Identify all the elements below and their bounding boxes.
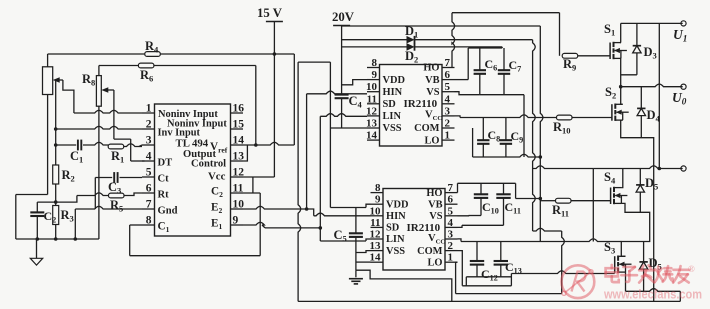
potentiometer P1 wiper arrow: [53, 77, 63, 83]
wire LO2 bottom row: [456, 293, 562, 295]
ground symbol left: [30, 258, 42, 265]
wire pin12-pin11 link: [252, 177, 254, 193]
wire C13 top stub: [500, 242, 502, 262]
capacitor C6: [474, 57, 498, 74]
svg-text:6: 6: [146, 183, 152, 195]
watermark url: [603, 287, 702, 302]
svg-text:7: 7: [445, 57, 451, 69]
diode D3: [633, 23, 657, 74]
diode D5 lower: [639, 242, 661, 292]
svg-text:VB: VB: [425, 75, 440, 86]
svg-text:COM: COM: [414, 123, 440, 134]
svg-text:C6: C6: [485, 57, 498, 73]
svg-text:Control: Control: [191, 159, 226, 170]
svg-text:R6: R6: [140, 68, 153, 84]
svg-text:D5: D5: [645, 176, 658, 192]
U1 internal pin labels: [158, 109, 228, 234]
wire C9 bottom stub: [505, 144, 507, 157]
potentiometer R8 label: [82, 72, 95, 88]
wire C2 top stub: [36, 202, 38, 212]
U1 pins 1-8 stubs and numbers: [142, 103, 155, 227]
wire pin8 drop: [129, 225, 131, 256]
wire P1 top stub: [47, 54, 49, 67]
capacitor C9: [500, 129, 524, 145]
svg-text:9: 9: [233, 215, 239, 227]
capacitor C8: [477, 128, 500, 144]
wire pin13 link: [243, 145, 247, 161]
wire HO1 top row: [452, 12, 560, 14]
wire S3 source row: [626, 289, 681, 292]
wire U0 row: [621, 84, 683, 87]
wire COM1 drop: [472, 128, 474, 157]
svg-text:D2: D2: [405, 49, 418, 65]
wire C6C7 top row: [468, 47, 502, 49]
svg-text:R4: R4: [145, 39, 159, 55]
wire divider riser: [56, 196, 77, 203]
resistor R5: [109, 193, 125, 213]
svg-text:15: 15: [233, 119, 245, 131]
wire VDD1 jog: [342, 80, 367, 85]
svg-text:VSS: VSS: [386, 246, 405, 257]
wire gnd row to pin7: [75, 206, 142, 209]
svg-text:3: 3: [445, 105, 451, 117]
wire caps drop to COM2 path: [465, 277, 467, 286]
svg-text:10: 10: [370, 205, 382, 217]
wire R11 to S4 gate: [571, 200, 610, 202]
wire divider row to R5: [77, 193, 109, 196]
wire R1 to pin3: [124, 144, 142, 147]
wire R9 feed drop: [559, 13, 561, 56]
svg-text:DT: DT: [158, 158, 173, 169]
potentiometer R8 body: [96, 76, 101, 107]
wire S3 drain: [621, 255, 625, 257]
svg-text:Rt: Rt: [158, 190, 170, 201]
node 20V leg join: [658, 167, 662, 171]
resistor R6: [138, 63, 154, 83]
wire VDD2 row: [330, 204, 370, 207]
wire S4 drain row left: [533, 166, 594, 169]
svg-text:C1: C1: [70, 149, 83, 165]
svg-text:R2: R2: [62, 168, 75, 184]
svg-text:7: 7: [448, 182, 454, 194]
capacitor C2: [30, 209, 56, 225]
wire C12 top stub: [476, 242, 478, 262]
diode D5 upper: [636, 169, 658, 213]
svg-text:6: 6: [445, 69, 451, 81]
svg-text:C8: C8: [488, 128, 501, 144]
wire ground stem: [36, 239, 38, 258]
svg-text:R3: R3: [61, 208, 74, 224]
wire R10 to S2 gate: [572, 117, 612, 119]
wire C7 top stub: [503, 48, 505, 70]
svg-text:R11: R11: [552, 203, 569, 219]
potentiometer P1 body: [43, 67, 53, 95]
wire C9 top stub: [505, 118, 507, 141]
wire divider to C2: [37, 201, 55, 203]
power 15V supply: [257, 6, 283, 22]
wire D1 bus drop: [533, 40, 536, 231]
svg-text:5: 5: [445, 81, 451, 93]
capacitor C3: [108, 172, 121, 195]
node U0 mid: [619, 85, 623, 89]
gate driver U3 IR2110 body: [383, 189, 445, 271]
wire R8 bottom drop: [98, 106, 100, 239]
wire feedback bus vertical: [55, 80, 57, 165]
wire gnd row riser: [74, 209, 76, 239]
wire R3 bottom: [55, 225, 57, 240]
wire E1 to branch: [265, 227, 320, 229]
svg-text:COM: COM: [417, 246, 443, 257]
wire HO2 to R11: [540, 199, 555, 201]
svg-text:12: 12: [233, 167, 245, 179]
svg-text:10: 10: [233, 199, 245, 211]
svg-text:VSS: VSS: [383, 123, 402, 134]
wire VS1 drop: [523, 95, 525, 157]
svg-text:D4: D4: [647, 108, 661, 124]
wire C12 bottom stub: [476, 265, 478, 277]
wire C5 bottom: [355, 237, 357, 270]
node bus HO2row: [539, 197, 543, 201]
wire C5 riser top: [355, 208, 357, 234]
svg-text:12: 12: [366, 105, 378, 117]
wire VSS1 row: [330, 127, 367, 129]
capacitor C4: [335, 94, 363, 110]
capacitor C12: [470, 261, 498, 283]
resistor R9: [562, 53, 578, 72]
wire pin1 row: [74, 110, 142, 113]
svg-text:IR2110: IR2110: [404, 98, 438, 110]
wire VSS net vertical: [329, 62, 331, 207]
transistor S4: [604, 170, 627, 204]
U2 internal pin labels: [383, 63, 443, 147]
svg-text:13: 13: [370, 240, 382, 252]
capacitor C1: [70, 140, 83, 165]
svg-text:1: 1: [448, 252, 454, 264]
wire right end riser: [679, 291, 681, 301]
wire VccA row: [458, 239, 622, 242]
wire VS2 stub link: [458, 215, 469, 217]
wire C12C13 bottom row: [466, 276, 511, 278]
watermark text dianzifashaoyou: [606, 265, 690, 283]
svg-text:11: 11: [233, 183, 244, 195]
svg-text:4: 4: [448, 217, 454, 229]
svg-text:14: 14: [370, 252, 382, 264]
capacitor C7: [498, 58, 521, 74]
svg-text:R9: R9: [563, 57, 576, 73]
node E2 branch: [305, 207, 309, 211]
svg-text:3: 3: [448, 229, 454, 241]
svg-text:SD: SD: [386, 223, 399, 234]
svg-text:C11: C11: [505, 200, 521, 216]
svg-text:13: 13: [366, 118, 378, 130]
wire C4 bottom: [341, 98, 343, 128]
node rail gndrow: [74, 237, 78, 241]
wire R6 row right: [154, 65, 256, 67]
svg-text:8: 8: [372, 57, 378, 69]
svg-text:LO: LO: [427, 257, 442, 268]
node feedback pin2: [54, 127, 58, 131]
node Vref-R6: [254, 143, 258, 147]
wire HIN1 row: [307, 91, 367, 94]
wire S3 source: [625, 272, 627, 291]
svg-text:14: 14: [233, 135, 245, 147]
wire E1 riser down: [319, 228, 321, 241]
wire E1 riser up: [319, 116, 321, 228]
svg-text:6: 6: [448, 194, 454, 206]
wire DT link to pin4: [131, 160, 145, 162]
svg-text:11: 11: [367, 93, 377, 105]
svg-text:15 V: 15 V: [257, 6, 283, 20]
wire 20V bus drop: [540, 26, 543, 242]
wire C8 top stub: [482, 118, 484, 141]
capacitor C10: [474, 194, 499, 215]
svg-text:13: 13: [233, 151, 245, 163]
ground symbol earth U3: [349, 279, 363, 284]
node rail R3: [54, 237, 58, 241]
wire 20V rail down to C4: [341, 26, 343, 95]
wire C8C9 bottom row: [473, 154, 541, 157]
wire VB1 riser: [467, 48, 469, 80]
svg-text:C4: C4: [349, 94, 363, 110]
svg-text:R10: R10: [553, 120, 571, 136]
svg-text:S1: S1: [604, 22, 615, 38]
wire LO2 jog: [456, 262, 458, 293]
wire Vcc1 jog: [455, 116, 461, 118]
wire VSS net top: [298, 61, 330, 63]
svg-text:VDD: VDD: [386, 199, 409, 210]
wire pin8 left: [130, 224, 142, 226]
potentiometer R8 wiper arrow: [101, 87, 114, 93]
svg-text:8: 8: [375, 182, 381, 194]
diode D4: [637, 87, 660, 138]
wire C2 bottom stub: [36, 216, 38, 239]
wire S1 source: [620, 58, 622, 86]
wire loop riser to pin11: [259, 193, 261, 256]
wire 20V leg drop: [658, 23, 660, 168]
capacitor C11: [496, 194, 521, 215]
wire left loop top: [16, 194, 48, 196]
svg-text:3: 3: [146, 135, 152, 147]
svg-text:5: 5: [448, 205, 454, 217]
wire 15V down to Vcc: [273, 54, 275, 177]
svg-text:HIN: HIN: [383, 87, 403, 98]
transistor S1: [604, 22, 627, 59]
resistor R11: [552, 198, 571, 218]
wire C11 top stub: [503, 183, 505, 194]
node rail C2: [36, 237, 40, 241]
wire S2 source drop: [653, 169, 655, 302]
U3 internal pin labels: [386, 188, 445, 269]
capacitor C5: [334, 228, 363, 244]
wire S4 source: [621, 203, 649, 254]
wire S3 gate row: [511, 271, 614, 274]
wire C6 top stub: [479, 48, 481, 70]
wire VS1 jog: [455, 92, 480, 95]
wire COM2 riser: [510, 274, 512, 286]
wire VS2 row: [469, 215, 482, 217]
terminal mid output: [681, 166, 686, 171]
wire LIN1 row: [320, 114, 367, 117]
svg-text:C3: C3: [108, 180, 121, 196]
wire R4 row left: [48, 53, 146, 55]
resistor R4: [145, 39, 161, 56]
wire HO1 riser: [452, 13, 455, 68]
node feedback pin3: [54, 143, 58, 147]
wire bus 593 drop: [592, 169, 594, 242]
svg-text:10: 10: [366, 81, 378, 93]
wire 15V rail down: [273, 22, 275, 55]
wire rail G: [298, 300, 680, 302]
diode D2: [405, 43, 418, 64]
svg-text:C12: C12: [481, 267, 498, 283]
wire D2 line left: [342, 46, 407, 48]
wire pin2 row: [56, 126, 142, 129]
wire VB1 jog: [455, 79, 469, 81]
wire C6C7 bottom row: [480, 94, 524, 96]
svg-text:16: 16: [233, 103, 245, 115]
svg-text:Vcc: Vcc: [208, 171, 226, 183]
U3 pins 8-14 stubs and numbers: [370, 182, 384, 264]
wire S2 source: [621, 120, 654, 168]
svg-text:1: 1: [445, 130, 451, 142]
wire C3 to pin5: [120, 177, 143, 179]
svg-text:TL 494: TL 494: [176, 138, 209, 150]
wire rail G step: [356, 270, 452, 301]
resistor R2: [53, 165, 75, 184]
svg-text:2: 2: [445, 118, 451, 130]
svg-text:11: 11: [370, 217, 380, 229]
svg-text:C10: C10: [482, 200, 499, 216]
wire D1 line left: [342, 39, 407, 41]
wire E2 row: [243, 206, 307, 209]
wire HO2 path: [458, 183, 541, 198]
U2 pins 7-1 stubs and numbers: [442, 57, 455, 142]
resistor R3: [53, 206, 74, 225]
wire P1 bottom stub: [47, 95, 49, 195]
wire R2-R3 link: [55, 184, 57, 206]
wire row231: [533, 228, 562, 231]
op-amp U1 TL494 body: [155, 104, 231, 236]
watermark registered mark: [688, 264, 695, 274]
wire pin14-2 row: [356, 261, 371, 263]
svg-text:9: 9: [375, 194, 381, 206]
diode D1: [405, 24, 418, 44]
svg-text:Ct: Ct: [158, 174, 170, 185]
wire COM2 bottom row: [462, 285, 511, 287]
wire P1 wiper step: [63, 80, 74, 113]
wire COM2 jog: [458, 251, 463, 286]
svg-text:VS: VS: [426, 87, 440, 98]
svg-text:7: 7: [146, 199, 152, 211]
svg-text:5: 5: [146, 167, 152, 179]
wire C10 top stub: [480, 183, 482, 194]
wire ground rail: [16, 238, 99, 240]
wire Vref row: [243, 142, 294, 145]
svg-text:LO: LO: [424, 135, 439, 146]
wire E2 jog to HIN2: [307, 209, 371, 216]
wire R8 top stub: [98, 66, 100, 76]
svg-text:S3: S3: [604, 240, 615, 256]
svg-text:2: 2: [146, 119, 152, 131]
wire D2 line right: [415, 47, 503, 48]
svg-text:C7: C7: [509, 58, 522, 74]
svg-text:R8: R8: [82, 72, 95, 88]
wire C6 bottom stub: [479, 74, 481, 95]
wire pin3 row left: [56, 144, 76, 146]
terminal U0 output: [672, 84, 687, 106]
gate driver U2 IR2110 body: [380, 65, 443, 147]
svg-text:VB: VB: [428, 199, 443, 210]
wire S4 drain: [621, 169, 622, 188]
wire VSS2 row: [356, 251, 371, 253]
wire left loop vertical: [15, 195, 17, 240]
svg-text:SD: SD: [383, 99, 396, 110]
transistor S3: [604, 240, 632, 273]
wire R8 wiper drop: [113, 90, 115, 139]
capacitor C13: [494, 260, 522, 276]
wire R5 to pin6: [124, 193, 142, 196]
wire LIN2 row: [320, 239, 370, 241]
resistor R10: [553, 115, 572, 135]
svg-text:1: 1: [146, 103, 152, 115]
svg-text:HIN: HIN: [386, 211, 406, 222]
svg-text:VS: VS: [429, 211, 443, 222]
wire C13 bottom stub: [500, 265, 502, 277]
wire C3 left drop: [94, 178, 96, 210]
wire DT link vertical: [130, 139, 132, 161]
U1 pins 16-9 stubs and numbers: [231, 103, 245, 227]
wire C7 bottom stub: [503, 74, 505, 95]
svg-text:D3: D3: [644, 45, 657, 61]
wire R6 row left: [99, 65, 139, 67]
wire C11 bottom path: [503, 198, 505, 225]
wire C1 to R1: [83, 142, 109, 146]
wire pin4 row: [458, 225, 504, 227]
watermark logo circle R: [562, 265, 595, 298]
terminal U1 output: [673, 21, 687, 44]
svg-text:8: 8: [146, 215, 152, 227]
wire C8 bottom stub: [482, 144, 484, 157]
wire S4 drain row: [593, 166, 682, 169]
svg-text:S4: S4: [604, 170, 616, 186]
svg-text:LIN: LIN: [383, 111, 402, 122]
svg-text:S2: S2: [605, 85, 616, 101]
wire LO2 riser: [562, 231, 565, 294]
svg-text:HO: HO: [426, 188, 442, 199]
svg-text:12: 12: [370, 229, 382, 241]
svg-text:®: ®: [688, 264, 695, 274]
wire Vcc1 row: [460, 115, 556, 118]
U2 pins 8-14 stubs and numbers: [366, 57, 380, 142]
node 15V junction: [273, 52, 277, 56]
wire C10 bottom path: [480, 198, 482, 216]
U3 pins 7-1 stubs and numbers: [445, 182, 458, 264]
wire R9 to S1 gate: [578, 55, 610, 57]
wire D1 line right: [415, 39, 533, 41]
svg-text:LIN: LIN: [386, 234, 405, 245]
wire 20V line1: [342, 25, 541, 27]
svg-text:4: 4: [445, 93, 451, 105]
svg-text:C9: C9: [511, 129, 524, 145]
wire VSS net left drop: [298, 62, 301, 301]
node divider mid: [54, 200, 58, 204]
wire gnd stem2: [355, 270, 357, 277]
transistor S2: [605, 85, 629, 121]
svg-text:www.elecfans.com: www.elecfans.com: [603, 287, 702, 302]
svg-text:R1: R1: [111, 149, 124, 165]
svg-text:Gnd: Gnd: [158, 206, 178, 217]
wire DT link horizontal: [114, 138, 131, 140]
